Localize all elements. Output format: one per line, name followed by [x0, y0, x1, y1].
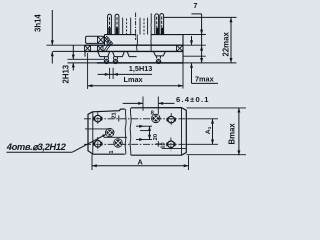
row centerline 2 [84, 143, 187, 145]
dimension 1,5H13 [98, 64, 153, 79]
seat trapezoid right [153, 51, 165, 56]
svg-text:Bmax: Bmax [228, 123, 237, 145]
contact stud C (dark) [152, 114, 160, 122]
svg-text:3h14: 3h14 [33, 14, 42, 32]
break line 2 (wavy) [150, 13, 152, 51]
wire: top extension line from right pin tops [164, 16, 237, 18]
svg-text:7max: 7max [195, 75, 214, 84]
seat trapezoid left 3 (cut by break) [127, 51, 137, 56]
hole bottom-right [168, 141, 175, 148]
pin 2 (top left pair, right pin) [115, 14, 119, 34]
dimension A1 [187, 119, 219, 145]
svg-text:6.4±0.1: 6.4±0.1 [176, 95, 209, 104]
break line 1 (wavy) [136, 35, 139, 52]
svg-text:7: 7 [193, 1, 197, 10]
dimension 6.4±0.1 [123, 95, 210, 114]
glass seal diamond 1 [104, 36, 110, 42]
pin 3 (top right pair, left pin) [155, 14, 159, 35]
seat trapezoid left 1 [98, 51, 110, 56]
seat bottom extension line to dim [183, 55, 206, 57]
svg-text:21: 21 [111, 112, 117, 118]
dimension 3h14 [33, 10, 54, 64]
wire: bottom line of side view (stud ends) [68, 62, 98, 64]
stud row centerline [85, 128, 109, 130]
break lines in bottom view [125, 109, 126, 154]
svg-text:20: 20 [153, 134, 159, 140]
svg-text:1: 1 [109, 150, 115, 153]
wire: 2H13 upper extension line [68, 58, 105, 60]
pin 4 (top right pair, right pin) [160, 14, 164, 35]
svg-text:10: 10 [160, 142, 166, 148]
svg-text:2H13: 2H13 [61, 64, 70, 83]
center cross mark [156, 141, 162, 147]
svg-text:8: 8 [151, 111, 154, 117]
row centerline 1 [84, 118, 187, 120]
stud 1 end circle [104, 59, 109, 64]
glass seal diamond 2 [107, 40, 113, 46]
dimension 22max [221, 18, 232, 63]
dimension Bmax [187, 108, 247, 156]
dimension 2H13 [61, 45, 75, 84]
body right edge [182, 35, 184, 63]
stud 3 shaft [157, 56, 161, 59]
stud 2 shaft [114, 57, 118, 60]
stud 1 shaft [105, 57, 109, 60]
wire: body top extension to dimension 7 [183, 34, 206, 36]
body left edge [104, 35, 106, 46]
svg-text:Lmax: Lmax [124, 75, 143, 84]
dimension A [92, 155, 189, 171]
wire: body top line [105, 34, 137, 36]
dimension Lmax [88, 53, 183, 89]
right end section box [177, 45, 184, 51]
wire: flange plate top line [47, 44, 86, 46]
stud 2 end circle [113, 59, 118, 64]
section X in flange tab [98, 36, 105, 43]
svg-text:4отв.⌀3,2H12: 4отв.⌀3,2H12 [6, 141, 67, 152]
dimension 7 (top right) [191, 1, 203, 63]
dimension 7max [190, 36, 218, 84]
wire: flange plate bottom line [53, 50, 85, 52]
svg-text:A: A [138, 157, 144, 166]
hole top-right [168, 116, 175, 123]
svg-text:A1: A1 [205, 126, 212, 134]
hidden middle pins (dashed) [122, 18, 124, 35]
label 4 holes [6, 134, 106, 152]
pin 1 (top left pair, left pin) [108, 14, 112, 34]
flange tab box [86, 36, 104, 43]
contact stud A (dark) [106, 128, 114, 136]
contact stud B (dark) [114, 139, 122, 147]
stud 3 end circle [156, 59, 161, 64]
recess line right portion [162, 148, 186, 150]
seat trapezoid left 2 [112, 51, 124, 56]
plate inner edge lines [92, 112, 94, 154]
hole top-left [95, 115, 102, 122]
flange left lip [84, 51, 86, 56]
svg-text:22max: 22max [221, 32, 230, 57]
svg-text:1,5H13: 1,5H13 [129, 64, 153, 73]
plate outline [88, 108, 186, 156]
flange plate section boxes [85, 45, 91, 51]
dimension 20 [136, 125, 159, 141]
hole bottom-left [95, 141, 102, 148]
